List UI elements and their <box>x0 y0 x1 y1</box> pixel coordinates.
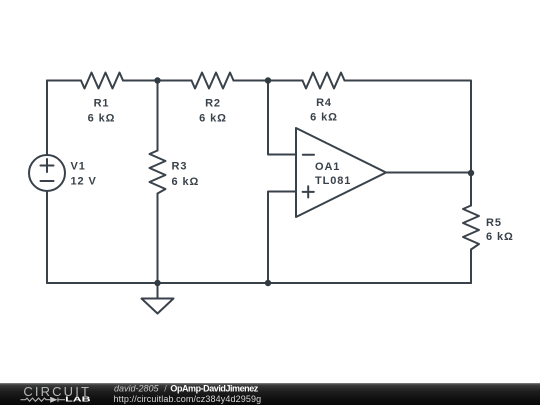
footer bar <box>0 383 540 405</box>
resistor R5 <box>463 206 479 250</box>
svg-text:R2: R2 <box>205 97 221 109</box>
wire inverting input from node B <box>268 81 296 155</box>
resistor R2 <box>192 73 234 89</box>
svg-text:david-2805/OpAmp-DavidJimenez: david-2805/OpAmp-DavidJimenez <box>114 384 259 394</box>
wire between R1 and R2 <box>123 80 192 82</box>
wire between R2 and R4 <box>234 80 303 82</box>
wire R4 to top-right corner and down <box>345 81 472 206</box>
svg-text:V1: V1 <box>71 161 86 173</box>
svg-text:12 V: 12 V <box>71 175 97 187</box>
node A junction R1-R2-R3 <box>154 77 160 83</box>
svg-text:6 kΩ: 6 kΩ <box>486 231 514 243</box>
node bottom-right junction <box>265 280 271 286</box>
svg-text:6 kΩ: 6 kΩ <box>199 112 227 124</box>
node B junction R2-R4-inv <box>265 77 271 83</box>
logo resistor-diode mark <box>21 398 66 402</box>
voltage source V1 <box>29 155 65 191</box>
svg-text:R4: R4 <box>316 97 332 109</box>
svg-text:6 kΩ: 6 kΩ <box>310 112 338 124</box>
wire bottom horizontal <box>47 282 471 284</box>
wire op-amp output <box>386 172 471 174</box>
op-amp OA1 <box>296 128 386 217</box>
node ground junction <box>154 280 160 286</box>
resistor R1 <box>81 73 123 89</box>
ground <box>157 283 159 299</box>
wire left vertical bottom (V1 to bottom wire) <box>46 191 48 283</box>
wire non-inverting input to bottom <box>268 192 296 284</box>
wire R3 bottom lead <box>157 194 159 284</box>
svg-text:6 kΩ: 6 kΩ <box>88 112 116 124</box>
resistor R3 <box>150 151 166 194</box>
wire R5 to bottom-right corner <box>470 250 472 284</box>
wire top-left horizontal lead <box>47 80 81 82</box>
svg-text:http://circuitlab.com/cz384y4d: http://circuitlab.com/cz384y4d2959g <box>114 394 262 404</box>
wire left vertical top (V1 to top wire) <box>46 81 48 156</box>
resistor R4 <box>303 73 345 89</box>
svg-text:TL081: TL081 <box>315 175 351 187</box>
svg-text:R1: R1 <box>94 97 110 109</box>
svg-text:R3: R3 <box>172 161 188 173</box>
node out junction <box>468 170 474 176</box>
svg-text:R5: R5 <box>486 217 502 229</box>
svg-text:6 kΩ: 6 kΩ <box>172 176 200 188</box>
svg-text:LAB: LAB <box>65 395 91 404</box>
svg-text:OA1: OA1 <box>315 161 340 173</box>
wire R3 top lead <box>157 81 159 151</box>
